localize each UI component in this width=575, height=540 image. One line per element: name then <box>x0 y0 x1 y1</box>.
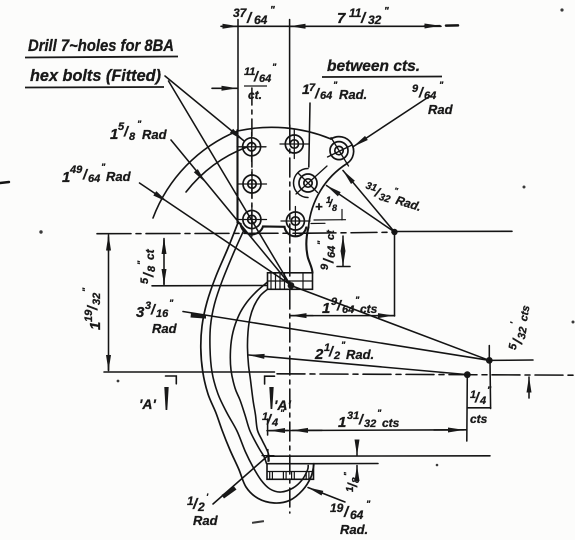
hole H6 <box>238 205 267 234</box>
1/2 rad leader <box>213 457 267 505</box>
1 19/32 dimension vertical <box>108 235 110 251</box>
svg-text:Rad: Rad <box>428 102 454 117</box>
svg-text:131/32"cts: 131/32"cts <box>338 408 400 431</box>
main vertical centreline x=290 <box>289 20 291 126</box>
svg-text:1/2': 1/2' <box>187 492 209 514</box>
svg-text:31/32"Rad.: 31/32"Rad. <box>362 178 425 215</box>
svg-text:9/64": 9/64" <box>412 80 444 102</box>
top dimension line <box>221 25 441 27</box>
2 1/2 rad leader line to second centre dot <box>249 355 467 375</box>
svg-text:ct.: ct. <box>248 88 262 102</box>
5/8 ct dimension vertical <box>163 239 165 253</box>
hole H4 <box>238 170 267 199</box>
foot top edge extension <box>314 463 379 465</box>
section corner left <box>166 376 177 384</box>
hole H1 <box>237 133 266 162</box>
31/32 rad leader a <box>343 171 395 233</box>
17/64 rad leader <box>309 103 310 167</box>
plus-1/8 marks near neck <box>311 210 346 224</box>
svg-text:between cts.: between cts. <box>327 58 420 75</box>
label 9/64 ct (rotated) <box>316 229 338 270</box>
horizontal centreline y=233.5 <box>97 232 310 235</box>
top dim arrows <box>222 25 238 27</box>
9/64 ct dimension <box>342 236 344 250</box>
1/8 dimension arrows <box>356 441 358 455</box>
5/8 extension line <box>152 285 267 287</box>
plate left edge <box>236 130 238 223</box>
half-rad centre mark <box>262 450 274 462</box>
horizontal centreline segment to 31/32 centre <box>310 232 395 233</box>
plate top arc (1 49/64 rad construction arc continuing into plate outline) <box>153 127 331 218</box>
label 1/8 (rotated, near foot) <box>343 472 362 492</box>
svg-text:711/32": 711/32" <box>337 6 389 27</box>
svg-text:9/64"ct: 9/64"ct <box>316 229 338 270</box>
section arrow right <box>269 387 273 409</box>
svg-text:5/8"ct: 5/8"ct <box>136 248 158 284</box>
svg-text:hex bolts (Fitted): hex bolts (Fitted) <box>30 66 161 85</box>
svg-text:Rad: Rad <box>152 321 178 336</box>
svg-text:+: + <box>315 199 323 214</box>
svg-text:1/4": 1/4" <box>470 385 492 407</box>
svg-text:21/2"Rad.: 21/2"Rad. <box>314 340 374 363</box>
plate right edge arc 31/32 rad <box>309 164 348 228</box>
svg-text:11/64": 11/64" <box>244 62 277 85</box>
pivot to 2.5-rad centre line <box>291 286 489 361</box>
drill-note leader extension to pivot <box>169 81 291 285</box>
label 5/8 ct (rotated) <box>136 248 158 284</box>
hole column 1 centreline <box>251 88 253 236</box>
label 31/32 rad <box>362 178 425 215</box>
bottom dimension line 1/4 and 1 31/32 <box>267 429 466 432</box>
hole H2 <box>280 130 309 159</box>
neck right edge <box>306 227 312 273</box>
extension line x=238 <box>237 20 239 131</box>
vertical below dot2 <box>466 375 469 441</box>
handle outer curve (3 3/16 rad side) with 19/64 bottom wrap <box>201 224 314 503</box>
svg-text:19/64"cts: 19/64"cts <box>322 295 378 317</box>
horizontal line from 31/32 centre <box>395 230 513 232</box>
plate bottom edge with scallops under bottom holes <box>238 223 307 237</box>
svg-text:Drill 7~holes for 8BA: Drill 7~holes for 8BA <box>28 36 174 55</box>
31/32 centre dot <box>391 229 397 235</box>
hole H5 with boss circle <box>294 166 328 198</box>
svg-text:cts: cts <box>470 412 488 426</box>
3 3/16 leader line to centre dot <box>183 312 489 361</box>
5/32 up arrow <box>528 377 530 398</box>
label 1 19/32 (rotated) <box>81 287 104 330</box>
vertical below 2.5 centre dot <box>489 360 492 408</box>
boss mid line <box>268 280 313 282</box>
horizontal dash-dot centreline to right edge <box>277 374 575 375</box>
1 49/64 rad leader to pivot <box>140 183 291 285</box>
1/4 extension tick <box>267 419 269 435</box>
handle curve 2 with bottom wrap <box>210 232 308 492</box>
boss hatch strokes <box>271 273 303 289</box>
svg-text:Rad: Rad <box>193 513 219 528</box>
construction arc 1 5/8 rad <box>186 147 247 192</box>
svg-text:33/16": 33/16" <box>136 298 174 321</box>
centre dot of 2 1/2 rad <box>486 357 493 364</box>
svg-text:19/64": 19/64" <box>330 499 371 522</box>
hole H3 <box>281 207 310 236</box>
9/64 rad leader <box>354 96 431 147</box>
bracket under 1/4 cts <box>468 407 491 409</box>
svg-text:Rad.: Rad. <box>340 522 368 537</box>
short vertical through 2.5 centre dot <box>488 346 490 361</box>
1 5/8 rad leader to pivot <box>171 140 290 285</box>
foot mid line <box>267 471 314 473</box>
drill-note leader to hole H1 <box>165 76 244 141</box>
foot rectangle (bottom cross-section) <box>267 464 314 480</box>
5/32 cts line right of dot1 <box>489 359 533 361</box>
section corner right <box>265 376 275 384</box>
lobe around hole 7 (9/64 rad tip) <box>331 137 354 164</box>
foot hatch ticks <box>270 472 309 479</box>
hole H7 (in lobe) <box>328 138 353 167</box>
svg-text:'A': 'A' <box>139 396 156 412</box>
1 9/64 cts dimension line <box>291 315 313 317</box>
section line A-A horizontal <box>104 371 275 373</box>
line y=456 to the right <box>268 455 490 457</box>
vertical extension below 31/32 centre <box>394 232 396 316</box>
pivot dot <box>288 282 295 289</box>
section arrow left <box>164 387 168 410</box>
svg-text:149/64"Rad: 149/64"Rad <box>62 162 132 186</box>
svg-text:1/8": 1/8" <box>343 472 362 492</box>
11/64 ct arrow <box>212 87 237 89</box>
svg-text:5/32'cts: 5/32'cts <box>504 303 534 352</box>
svg-text:119/32": 119/32" <box>81 287 104 330</box>
svg-text:15/8"Rad: 15/8"Rad <box>110 119 168 143</box>
centre dot on horizontal centreline <box>464 371 471 378</box>
left edge stray mark <box>0 182 9 183</box>
svg-text:17/64"Rad.: 17/64"Rad. <box>302 80 367 102</box>
label 5/32 cts (rotated) <box>504 303 534 352</box>
svg-text:1/8: 1/8 <box>326 195 337 213</box>
31/32 rad leader b <box>327 186 395 233</box>
19/64 rad leader <box>308 488 345 503</box>
boss rectangle (pivot cross-section) <box>268 273 313 290</box>
svg-text:37/64": 37/64" <box>233 5 275 27</box>
handle curve 3 (inner web line) <box>230 282 267 464</box>
handle inner curve 4 <box>247 289 269 461</box>
